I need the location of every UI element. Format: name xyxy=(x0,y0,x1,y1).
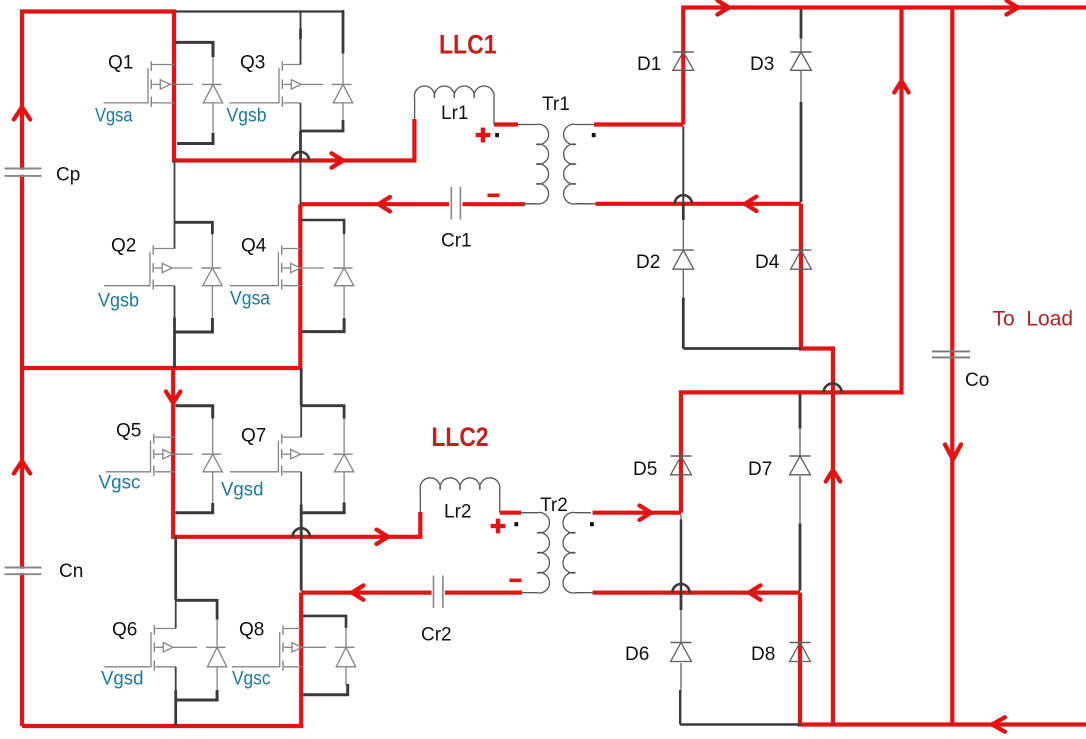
svg-text:Vgsa: Vgsa xyxy=(230,289,270,310)
svg-text:Vgsc: Vgsc xyxy=(99,473,141,494)
svg-text:Q8: Q8 xyxy=(239,620,264,641)
svg-text:D8: D8 xyxy=(751,644,775,665)
svg-text:D4: D4 xyxy=(755,252,780,273)
svg-text:Vgsb: Vgsb xyxy=(227,106,267,127)
svg-text:Q7: Q7 xyxy=(241,426,266,447)
svg-text:D5: D5 xyxy=(633,459,657,480)
svg-text:LLC1: LLC1 xyxy=(439,30,497,60)
svg-text:Vgsa: Vgsa xyxy=(95,106,133,127)
svg-text:Cn: Cn xyxy=(59,561,83,582)
svg-text:Vgsd: Vgsd xyxy=(101,669,144,690)
svg-text:Cr1: Cr1 xyxy=(441,231,472,252)
svg-text:Vgsb: Vgsb xyxy=(98,291,139,312)
svg-text:D3: D3 xyxy=(750,54,774,75)
svg-text:Tr1: Tr1 xyxy=(542,94,570,115)
svg-text:Cr2: Cr2 xyxy=(421,625,452,646)
svg-text:Cp: Cp xyxy=(56,165,80,186)
svg-text:Q1: Q1 xyxy=(108,53,133,74)
svg-text:D2: D2 xyxy=(636,252,660,273)
svg-text:LLC2: LLC2 xyxy=(432,422,489,452)
svg-text:D7: D7 xyxy=(748,459,772,480)
svg-text:To Load: To Load xyxy=(993,308,1074,331)
svg-text:Q4: Q4 xyxy=(241,236,267,257)
svg-text:Q2: Q2 xyxy=(111,236,136,257)
svg-text:Tr2: Tr2 xyxy=(540,495,568,516)
svg-text:Q5: Q5 xyxy=(116,421,141,442)
svg-text:D1: D1 xyxy=(637,54,661,75)
svg-text:Vgsd: Vgsd xyxy=(221,480,264,501)
svg-text:Vgsc: Vgsc xyxy=(232,669,271,690)
svg-text:Q3: Q3 xyxy=(240,53,265,74)
svg-text:Q6: Q6 xyxy=(112,620,137,641)
svg-text:Co: Co xyxy=(965,370,989,391)
svg-text:Lr1: Lr1 xyxy=(441,103,468,124)
svg-text:Lr2: Lr2 xyxy=(444,502,471,523)
svg-text:D6: D6 xyxy=(625,644,649,665)
